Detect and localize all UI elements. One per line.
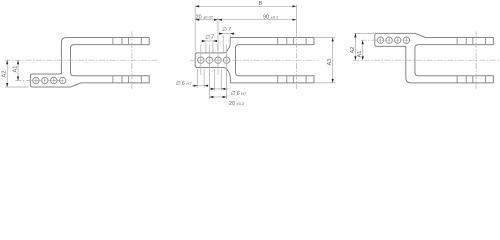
- dimension dia7 hole2 middle view: [202, 41, 218, 53]
- svg-text:20 ±0.2: 20 ±0.2: [229, 101, 245, 107]
- dimension dia6H7 hole3 middle view: [210, 69, 228, 91]
- prong hole lines middle view top prong: [278, 38, 306, 83]
- dimension B middle view: [195, 5, 296, 52]
- prong hole lines middle view bottom prong: [278, 76, 306, 83]
- svg-text:∅ 6 H7: ∅ 6 H7: [230, 91, 247, 97]
- dimension A2 right view: [354, 33, 356, 60]
- centerlines middle view: [191, 32, 319, 89]
- svg-text:A2: A2: [2, 71, 8, 78]
- plate holes middle view: [198, 57, 230, 63]
- svg-text:A2: A2: [350, 47, 356, 54]
- centerlines right view: [353, 32, 500, 89]
- prong hole lines left view bottom prong: [113, 76, 141, 83]
- prong hole lines left view top prong: [113, 38, 141, 83]
- prong hole lines right view bottom prong: [457, 76, 485, 83]
- extension lines left view: [5, 86, 29, 88]
- svg-text:∅ 6 H7: ∅ 6 H7: [176, 81, 193, 87]
- plate holes right view: [377, 37, 409, 43]
- svg-text:∅ 7: ∅ 7: [205, 35, 215, 41]
- centerlines left view: [5, 32, 158, 89]
- fork outline left view: [30, 38, 149, 88]
- fork outline middle view: [195, 38, 314, 83]
- dimension A3 middle view: [315, 38, 335, 83]
- dimension 20±0.02 middle view: [195, 18, 296, 50]
- svg-text:A1: A1: [12, 66, 18, 73]
- svg-text:∅ 7: ∅ 7: [222, 27, 232, 33]
- plate holes left view: [33, 77, 66, 83]
- dimension A1 left view: [17, 60, 19, 80]
- svg-text:A3: A3: [327, 59, 333, 66]
- dimension dia7 hole4 middle view: [219, 34, 235, 53]
- dimension dia6H7 hole1 middle view: [192, 69, 208, 88]
- prong hole lines right view top prong: [457, 38, 485, 83]
- svg-text:B: B: [259, 1, 263, 7]
- extension lines right view: [353, 32, 374, 34]
- dimension A2 left view: [6, 60, 8, 87]
- dimension 20±0.2 middle view: [209, 73, 226, 99]
- svg-text:A1: A1: [357, 51, 363, 58]
- fork outline right view: [375, 33, 494, 83]
- dimension A1 right view: [362, 40, 364, 60]
